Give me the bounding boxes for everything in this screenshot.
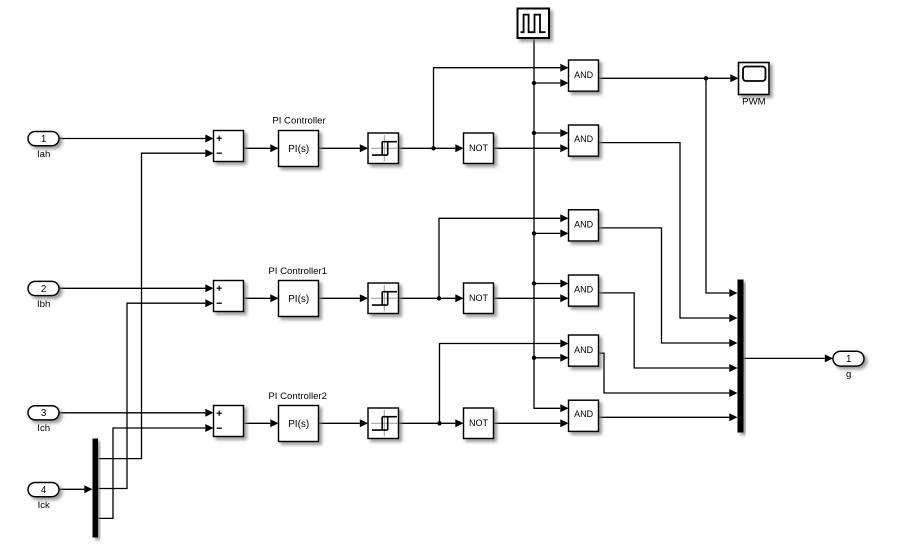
svg-text:Iah: Iah bbox=[37, 149, 50, 160]
svg-text:2: 2 bbox=[41, 284, 46, 295]
svg-text:Ich: Ich bbox=[37, 423, 50, 434]
svg-text:PI Controller2: PI Controller2 bbox=[268, 391, 327, 402]
svg-text:PI Controller: PI Controller bbox=[272, 116, 326, 127]
svg-text:AND: AND bbox=[574, 220, 594, 230]
svg-text:AND: AND bbox=[574, 134, 594, 144]
svg-text:PI Controller1: PI Controller1 bbox=[268, 266, 327, 277]
svg-text:NOT: NOT bbox=[469, 143, 489, 153]
svg-text:PI(s): PI(s) bbox=[288, 419, 309, 430]
svg-text:PWM: PWM bbox=[742, 96, 765, 107]
svg-text:Ick: Ick bbox=[38, 500, 50, 511]
svg-text:AND: AND bbox=[574, 409, 594, 419]
svg-text:AND: AND bbox=[574, 285, 594, 295]
svg-text:PI(s): PI(s) bbox=[288, 294, 309, 305]
svg-text:AND: AND bbox=[574, 70, 594, 80]
svg-text:PI(s): PI(s) bbox=[288, 144, 309, 155]
svg-text:4: 4 bbox=[41, 485, 47, 496]
svg-text:3: 3 bbox=[41, 408, 47, 419]
svg-text:NOT: NOT bbox=[469, 293, 489, 303]
svg-text:Ibh: Ibh bbox=[37, 299, 50, 310]
svg-text:1: 1 bbox=[846, 354, 851, 365]
svg-text:1: 1 bbox=[41, 134, 46, 145]
svg-text:g: g bbox=[846, 369, 851, 380]
svg-text:AND: AND bbox=[574, 345, 594, 355]
svg-text:NOT: NOT bbox=[469, 418, 489, 428]
